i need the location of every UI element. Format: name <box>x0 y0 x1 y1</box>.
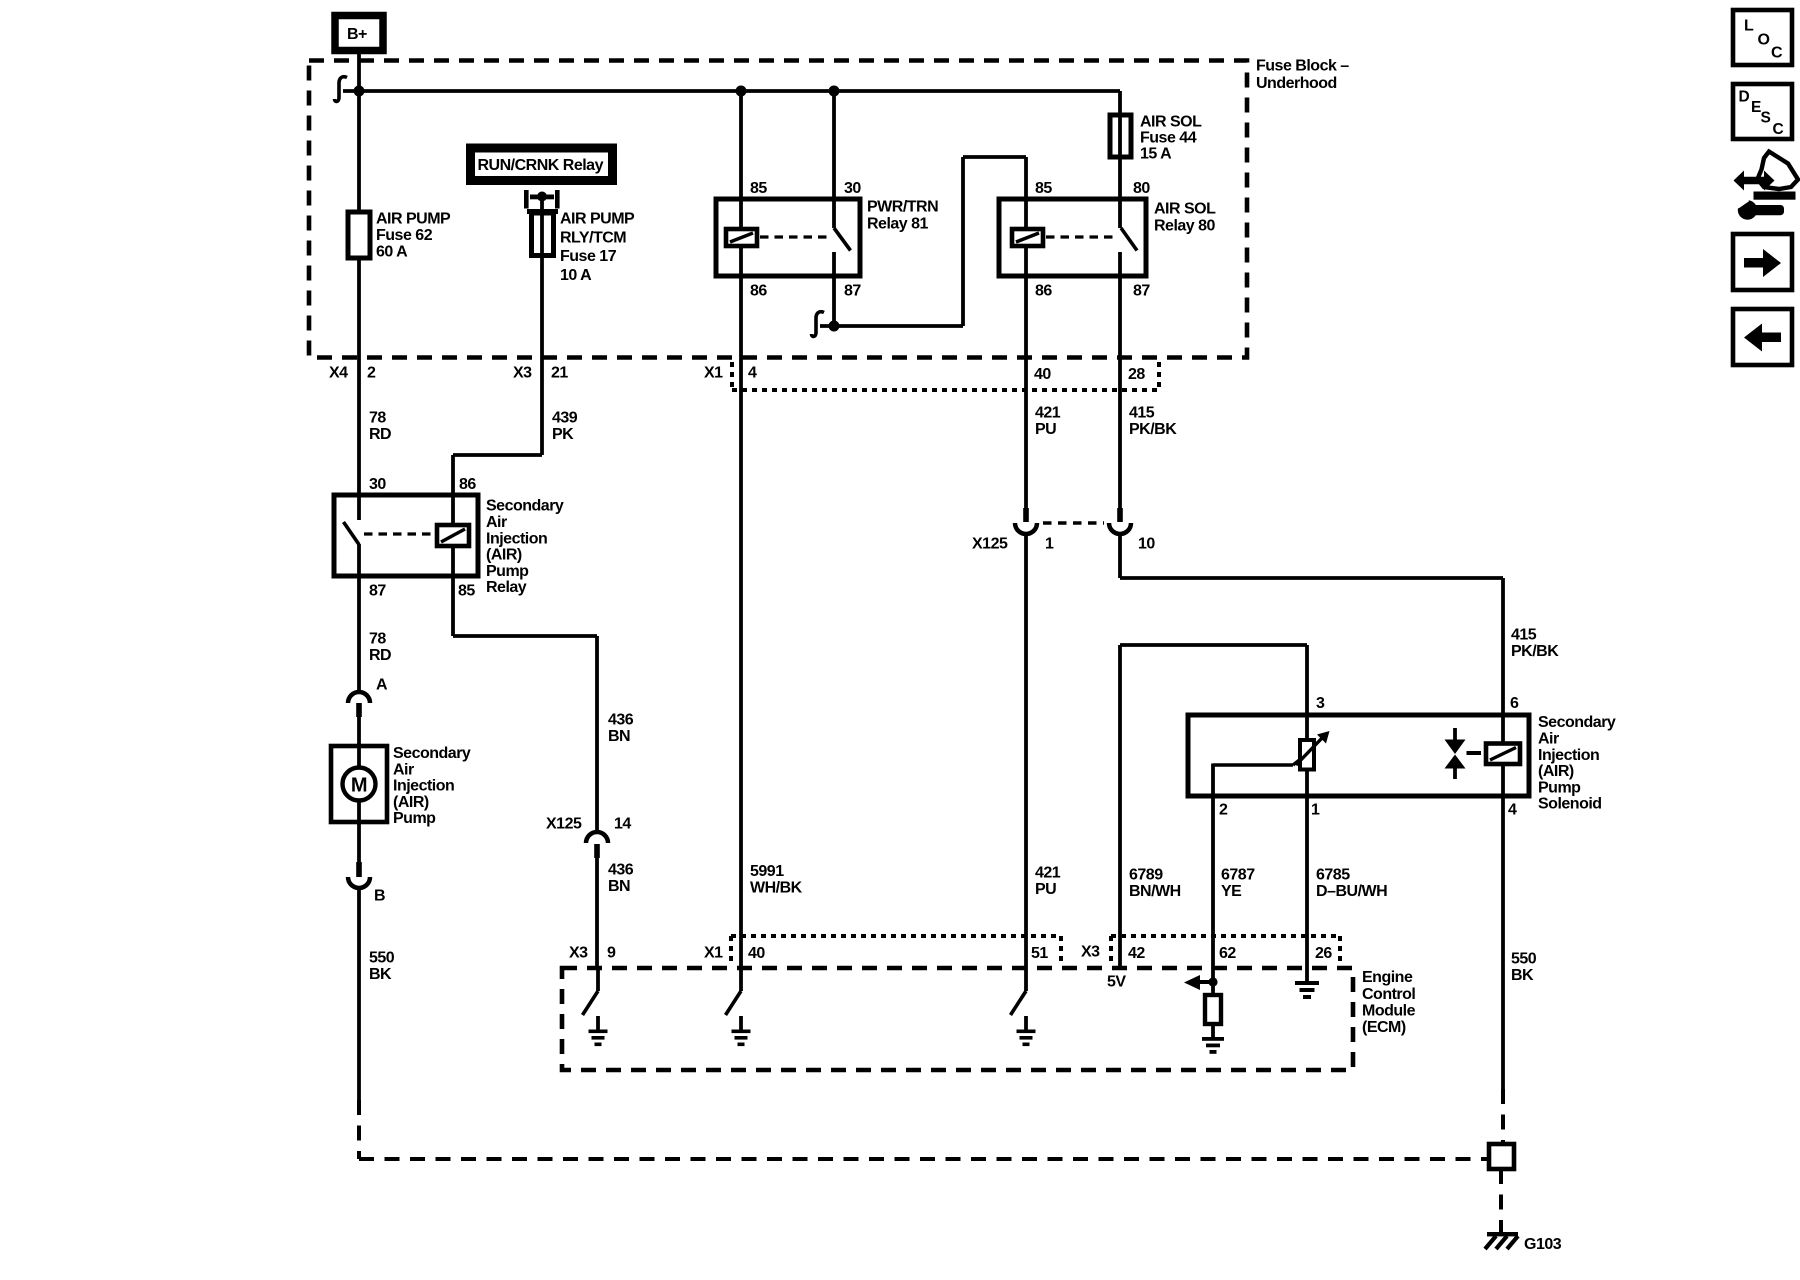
label AIR pump name <box>393 745 471 827</box>
svg-text:4: 4 <box>1508 802 1517 819</box>
svg-text:Injection: Injection <box>1538 747 1599 764</box>
label wire 436 BN upper <box>608 712 634 745</box>
fuse block underhood dashed box <box>309 61 1247 358</box>
svg-text:78: 78 <box>369 631 386 648</box>
svg-text:WH/BK: WH/BK <box>750 880 803 897</box>
svg-text:10: 10 <box>1138 536 1155 553</box>
wire solenoid pin3 <box>1305 645 1309 740</box>
relay80 coil-switch link <box>1046 235 1113 238</box>
RUN/CRNK relay output bracket <box>524 190 560 209</box>
svg-text:6789: 6789 <box>1129 867 1163 884</box>
relay81 switch <box>834 199 851 276</box>
relay80 switch <box>1120 199 1137 276</box>
svg-text:30: 30 <box>844 180 861 197</box>
connector X125-10 <box>1109 508 1155 553</box>
svg-text:(ECM): (ECM) <box>1362 1019 1406 1036</box>
svg-text:Secondary: Secondary <box>486 498 564 515</box>
label wire 415 PK/BK upper <box>1129 405 1177 438</box>
svg-text:BN/WH: BN/WH <box>1129 883 1181 900</box>
svg-text:415: 415 <box>1129 405 1155 422</box>
svg-text:86: 86 <box>750 283 767 300</box>
icon DESC box <box>1733 84 1792 139</box>
svg-text:A: A <box>376 677 388 694</box>
wire bus to relay81 pin85 <box>739 91 743 199</box>
svg-text:436: 436 <box>608 712 634 729</box>
svg-text:415: 415 <box>1511 627 1537 644</box>
label 6785 D-BU/WH <box>1316 867 1387 900</box>
wire 421 PU lower <box>1024 534 1028 968</box>
RUN/CRNK Relay box <box>471 148 613 181</box>
connector B <box>348 862 385 905</box>
splice pack dashed wire right <box>1501 1089 1505 1144</box>
node bus junction pin85 relay81 <box>736 86 747 97</box>
svg-text:Injection: Injection <box>393 778 454 795</box>
svg-text:550: 550 <box>369 950 395 967</box>
splice S-box <box>1489 1144 1514 1169</box>
X125 mate link <box>1043 521 1104 525</box>
connector X125-1 <box>972 508 1054 553</box>
svg-text:40: 40 <box>1034 366 1051 383</box>
solenoid sensor wiper from pin2 <box>1213 758 1302 796</box>
wire 421 PU upper <box>1024 276 1028 508</box>
svg-text:B: B <box>374 888 385 905</box>
label 6789 BN/WH <box>1129 867 1181 900</box>
svg-text:78: 78 <box>369 410 386 427</box>
connector row X1 dotted box <box>732 362 1159 390</box>
wire bus to relay81 pin30 <box>832 91 836 199</box>
node bus junction pin30 relay81 <box>829 86 840 97</box>
svg-text:436: 436 <box>608 862 634 879</box>
svg-text:Air: Air <box>486 514 507 531</box>
svg-text:Air: Air <box>393 761 414 778</box>
solenoid coil <box>1486 715 1520 796</box>
svg-text:Secondary: Secondary <box>1538 714 1616 731</box>
svg-text:21: 21 <box>551 365 568 382</box>
label relay80 pins <box>1035 180 1150 300</box>
svg-text:B+: B+ <box>347 26 367 43</box>
svg-text:E: E <box>1751 99 1761 116</box>
svg-text:Pump: Pump <box>1538 779 1581 796</box>
svg-text:6: 6 <box>1510 695 1519 712</box>
wire down to relay80 pin85 <box>1024 157 1028 199</box>
wire 550 BK right <box>1501 796 1505 1089</box>
label 5V <box>1107 974 1126 991</box>
label ECM pins <box>569 944 1332 963</box>
wire 78 RD to connector A <box>357 576 361 692</box>
icon back arrow box <box>1733 309 1792 365</box>
ECM pin26 ground <box>1295 968 1319 999</box>
svg-text:PK/BK: PK/BK <box>1511 643 1559 660</box>
AIR pump relay coil <box>437 495 469 576</box>
svg-text:AIR PUMP: AIR PUMP <box>560 211 635 228</box>
dashed wire below splice <box>1499 1169 1503 1232</box>
label wire 5991 WH/BK <box>750 863 803 896</box>
wire 5991 WH/BK <box>739 276 743 968</box>
svg-text:Fuse 44: Fuse 44 <box>1140 130 1197 147</box>
svg-text:Secondary: Secondary <box>393 745 471 762</box>
label fuse 62 <box>376 211 451 261</box>
svg-text:439: 439 <box>552 410 578 427</box>
label solenoid pins bottom <box>1219 802 1517 819</box>
svg-text:M: M <box>351 775 367 797</box>
ECM dashed box <box>562 968 1353 1070</box>
svg-text:Relay 80: Relay 80 <box>1154 217 1216 234</box>
wire 436 BN lower <box>595 858 599 968</box>
svg-text:PK: PK <box>552 426 574 443</box>
label wire 415 PK/BK right <box>1511 627 1559 660</box>
label 6787 YE <box>1221 867 1255 900</box>
label AIR relay pins <box>369 476 476 600</box>
svg-text:YE: YE <box>1221 883 1242 900</box>
svg-text:Underhood: Underhood <box>1256 75 1337 92</box>
wire A to pump <box>357 717 361 748</box>
wire 6787 YE <box>1211 796 1215 968</box>
svg-text:X4: X4 <box>329 365 348 382</box>
svg-text:87: 87 <box>844 283 861 300</box>
ECM pin9 switch to ground <box>583 968 608 1046</box>
wire relay81-87 elbow <box>812 276 840 336</box>
label solenoid name <box>1538 714 1616 813</box>
label wire 421 PU upper <box>1035 405 1061 438</box>
svg-text:3: 3 <box>1316 695 1325 712</box>
solenoid valve symbol <box>1445 728 1466 779</box>
wire B+ vertical 359 <box>357 49 361 212</box>
wire fuse44 to relay80 pin80 <box>1118 157 1122 199</box>
relay K80 AIR SOL box <box>999 199 1146 276</box>
svg-text:9: 9 <box>607 945 616 962</box>
svg-text:6785: 6785 <box>1316 867 1350 884</box>
svg-text:X125: X125 <box>972 536 1008 553</box>
connector X125-14 <box>546 816 631 858</box>
wire vertical 963 <box>961 157 965 326</box>
svg-text:40: 40 <box>748 945 765 962</box>
svg-text:51: 51 <box>1031 945 1048 962</box>
svg-text:87: 87 <box>1133 283 1150 300</box>
svg-text:4: 4 <box>748 365 757 382</box>
label ECM name <box>1362 969 1416 1036</box>
battery terminal B+ <box>335 16 383 51</box>
wire 439 PK <box>453 358 542 495</box>
svg-text:85: 85 <box>458 583 475 600</box>
svg-text:PU: PU <box>1035 881 1056 898</box>
svg-text:RUN/CRNK Relay: RUN/CRNK Relay <box>478 157 604 174</box>
svg-text:15 A: 15 A <box>1140 146 1172 163</box>
label relay81 name <box>867 199 938 233</box>
label X4-2 <box>329 365 376 382</box>
svg-text:X3: X3 <box>513 365 532 382</box>
svg-text:X3: X3 <box>1081 944 1100 961</box>
svg-text:Solenoid: Solenoid <box>1538 796 1602 813</box>
svg-text:PWR/TRN: PWR/TRN <box>867 199 938 216</box>
node B+ bus junction <box>335 77 365 102</box>
svg-text:6787: 6787 <box>1221 867 1255 884</box>
wire fuse62 to X4-2 <box>357 258 361 495</box>
label wire 421 PU lower <box>1035 865 1061 898</box>
svg-text:RD: RD <box>369 426 391 443</box>
svg-text:28: 28 <box>1128 366 1145 383</box>
svg-text:L: L <box>1744 18 1754 35</box>
svg-text:PU: PU <box>1035 421 1056 438</box>
solenoid box <box>1188 715 1529 796</box>
connector A <box>348 677 388 717</box>
svg-text:(AIR): (AIR) <box>486 547 522 564</box>
svg-text:O: O <box>1758 32 1770 49</box>
svg-text:X1: X1 <box>704 365 723 382</box>
label AIR pump relay name <box>486 498 564 597</box>
solenoid valve-coil link <box>1467 751 1482 755</box>
svg-text:85: 85 <box>750 180 767 197</box>
svg-text:Fuse 62: Fuse 62 <box>376 227 433 244</box>
fuse F44 AIR SOL 15A <box>1110 115 1131 157</box>
fuse F62 AIR PUMP 60A <box>348 212 370 258</box>
wire pump to connector B <box>357 822 361 862</box>
svg-text:5991: 5991 <box>750 863 784 880</box>
label wire 550 BK right <box>1511 951 1537 984</box>
svg-text:Injection: Injection <box>486 530 547 547</box>
svg-text:1: 1 <box>1311 802 1320 819</box>
svg-text:80: 80 <box>1133 180 1150 197</box>
svg-text:Pump: Pump <box>486 563 529 580</box>
wire 550 BK dashed continuation <box>359 1100 1487 1159</box>
svg-text:D–BU/WH: D–BU/WH <box>1316 883 1387 900</box>
label wire 550 BK left <box>369 950 395 983</box>
solenoid position sensor <box>1296 731 1330 796</box>
svg-text:RLY/TCM: RLY/TCM <box>560 229 626 246</box>
svg-text:C: C <box>1773 121 1784 138</box>
svg-text:AIR PUMP: AIR PUMP <box>376 211 451 228</box>
AIR relay coil-switch link <box>364 532 434 535</box>
wire AIR relay 85 down <box>453 576 597 831</box>
svg-text:X125: X125 <box>546 816 582 833</box>
AIR pump relay switch <box>344 495 360 576</box>
ECM pin62 pullup <box>1184 968 1224 1054</box>
label wire 436 BN lower <box>608 862 634 895</box>
svg-text:Control: Control <box>1362 986 1415 1003</box>
svg-text:10 A: 10 A <box>560 267 592 284</box>
icon adjust arrows and wrench <box>1734 152 1799 220</box>
ground G103 <box>1485 1232 1562 1253</box>
icon forward arrow box <box>1733 234 1792 290</box>
svg-text:86: 86 <box>1035 283 1052 300</box>
svg-text:Engine: Engine <box>1362 969 1413 986</box>
svg-text:Relay 81: Relay 81 <box>867 215 929 232</box>
fuse F17 AIR PUMP RLY/TCM 10A <box>527 209 558 256</box>
wire 415 PK/BK lower <box>1120 534 1503 715</box>
svg-text:2: 2 <box>1219 802 1228 819</box>
svg-text:Relay: Relay <box>486 579 527 596</box>
svg-text:14: 14 <box>614 816 631 833</box>
label wire 78 RD lower <box>369 631 391 664</box>
label wire 78 RD upper <box>369 410 391 443</box>
svg-text:AIR SOL: AIR SOL <box>1154 201 1216 218</box>
label pin28 <box>1128 366 1145 383</box>
relay80 coil <box>1012 199 1043 276</box>
svg-text:1: 1 <box>1045 536 1054 553</box>
svg-text:BN: BN <box>608 878 630 895</box>
svg-text:RD: RD <box>369 647 391 664</box>
wire to ECM 42 <box>1118 645 1122 968</box>
svg-text:85: 85 <box>1035 180 1052 197</box>
relay81 coil-switch link <box>760 235 827 238</box>
label wire 439 PK <box>552 410 578 443</box>
wire 415 PK/BK upper <box>1118 276 1122 508</box>
svg-text:421: 421 <box>1035 865 1061 882</box>
ECM connector X1 dotted box <box>731 936 1061 964</box>
wire 550 BK left <box>357 888 361 1100</box>
wire 6785 D-BU/WH <box>1305 796 1309 968</box>
wire bus to fuse44 <box>1118 91 1122 157</box>
svg-text:421: 421 <box>1035 405 1061 422</box>
motor M AIR pump <box>331 746 387 822</box>
wire pin3 horizontal <box>1120 643 1307 647</box>
label relay81 pins <box>750 180 861 300</box>
svg-text:5V: 5V <box>1107 974 1126 991</box>
svg-text:62: 62 <box>1219 945 1236 962</box>
svg-text:BK: BK <box>1511 967 1534 984</box>
relay K81 PWR/TRN box <box>716 199 860 276</box>
svg-text:Module: Module <box>1362 1002 1416 1019</box>
relay81 coil <box>726 199 757 276</box>
svg-text:26: 26 <box>1315 945 1332 962</box>
label fuse 44 <box>1140 114 1202 163</box>
svg-text:Fuse 17: Fuse 17 <box>560 248 617 265</box>
svg-text:Fuse Block –: Fuse Block – <box>1256 58 1349 75</box>
label fuse block underhood <box>1256 58 1349 93</box>
svg-text:G103: G103 <box>1524 1236 1562 1253</box>
ECM connector X3 dotted box <box>1111 936 1340 964</box>
svg-text:2: 2 <box>367 365 376 382</box>
svg-text:87: 87 <box>369 583 386 600</box>
svg-text:S: S <box>1761 110 1771 127</box>
svg-text:BK: BK <box>369 966 392 983</box>
svg-text:D: D <box>1739 89 1750 106</box>
label pin40 <box>1034 366 1051 383</box>
label X3-21 <box>513 365 568 382</box>
svg-text:30: 30 <box>369 476 386 493</box>
wire RUN/CRNK to fuse17 <box>540 196 544 358</box>
label relay80 name <box>1154 201 1216 235</box>
svg-text:C: C <box>1771 45 1783 62</box>
svg-text:Pump: Pump <box>393 810 436 827</box>
label X1-4 <box>704 365 757 382</box>
svg-text:550: 550 <box>1511 951 1537 968</box>
svg-text:AIR SOL: AIR SOL <box>1140 114 1202 131</box>
label fuse 17 <box>560 211 635 284</box>
relay AIR pump box <box>334 495 478 576</box>
ECM pin40 switch to ground <box>726 968 751 1046</box>
svg-text:PK/BK: PK/BK <box>1129 421 1177 438</box>
svg-text:(AIR): (AIR) <box>1538 763 1574 780</box>
icon LOC box <box>1733 10 1792 65</box>
wire 87 horizontal <box>820 324 963 328</box>
wire horizontal to relay80-85 <box>963 155 1026 159</box>
svg-text:X3: X3 <box>569 945 588 962</box>
svg-text:X1: X1 <box>704 945 723 962</box>
svg-text:Air: Air <box>1538 731 1559 748</box>
wire main bus horizontal <box>343 89 1120 93</box>
svg-text:86: 86 <box>459 476 476 493</box>
svg-text:BN: BN <box>608 728 630 745</box>
ECM pin51 switch to ground <box>1011 968 1036 1046</box>
svg-text:42: 42 <box>1128 945 1145 962</box>
svg-text:60 A: 60 A <box>376 244 408 261</box>
label solenoid pins top <box>1316 695 1519 712</box>
svg-text:(AIR): (AIR) <box>393 794 429 811</box>
